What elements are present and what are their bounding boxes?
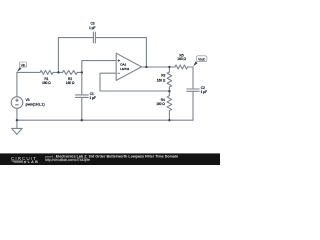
footer bar <box>0 153 220 165</box>
wire main input horizontal <box>17 71 40 73</box>
wire Vin corner down to source <box>16 72 18 96</box>
capacitor C3 <box>93 32 95 43</box>
resistor R1 <box>40 70 53 74</box>
resistor R4 <box>168 91 170 96</box>
wire R2 to node <box>77 71 82 73</box>
wire op-amp minus input feedback <box>100 73 169 91</box>
svg-text:160 Ω: 160 Ω <box>177 57 186 61</box>
wire Vout node down to C2 <box>192 67 194 89</box>
svg-text:1 µF: 1 µF <box>90 96 96 100</box>
svg-text:R3: R3 <box>161 74 165 78</box>
node Vout flag <box>193 56 207 66</box>
capacitor C1 <box>76 95 89 98</box>
svg-text:1 µF: 1 µF <box>89 26 95 30</box>
logo bolt <box>23 160 27 163</box>
node Vin flag <box>17 62 27 72</box>
wire output to R5 <box>169 66 175 68</box>
wire node A up to C3 <box>58 38 93 73</box>
voltage source polarity marks <box>15 99 18 105</box>
svg-text:160 Ω: 160 Ω <box>42 81 51 85</box>
resistor R2 <box>63 70 78 74</box>
svg-text:1 µF: 1 µF <box>201 90 207 94</box>
resistor R3 <box>168 67 170 72</box>
wire node B to op-amp plus input <box>82 61 116 73</box>
wire C2 to ground rail <box>192 91 194 120</box>
wire C3 to output riser <box>95 38 146 67</box>
svg-text:LAB: LAB <box>28 160 39 164</box>
svg-text:160 Ω: 160 Ω <box>156 102 165 106</box>
wire source to ground rail <box>16 108 18 120</box>
svg-text:160 Ω: 160 Ω <box>157 78 166 82</box>
svg-text:http://circuitlab.com/c/7443j9: http://circuitlab.com/c/7443j9e <box>45 158 90 162</box>
wire ground rail <box>17 119 193 121</box>
svg-text:160 Ω: 160 Ω <box>66 81 75 85</box>
junction dots <box>16 66 171 122</box>
resistor R5 <box>175 65 188 69</box>
wire between R1 and R2 <box>53 71 63 73</box>
wire op-amp output <box>142 66 170 68</box>
wire R5 to Vout node <box>188 66 194 68</box>
svg-text:Vout: Vout <box>198 58 204 62</box>
wire C1 to ground rail <box>81 97 83 120</box>
svg-text:LM741: LM741 <box>120 67 130 71</box>
voltage source V3 <box>11 97 23 109</box>
ground symbol <box>16 120 18 128</box>
schematic text labels <box>26 22 207 107</box>
capacitor C2 <box>187 89 199 91</box>
op-amp OA1 triangle <box>116 53 141 80</box>
svg-text:Vin: Vin <box>21 63 26 67</box>
wire node B down to C1 <box>81 72 83 95</box>
op-amp input polarity marks <box>118 59 121 73</box>
svg-text:OA1: OA1 <box>120 63 126 67</box>
svg-text:pwm(1Hz,1): pwm(1Hz,1) <box>26 102 45 106</box>
logo speed lines <box>11 161 23 163</box>
